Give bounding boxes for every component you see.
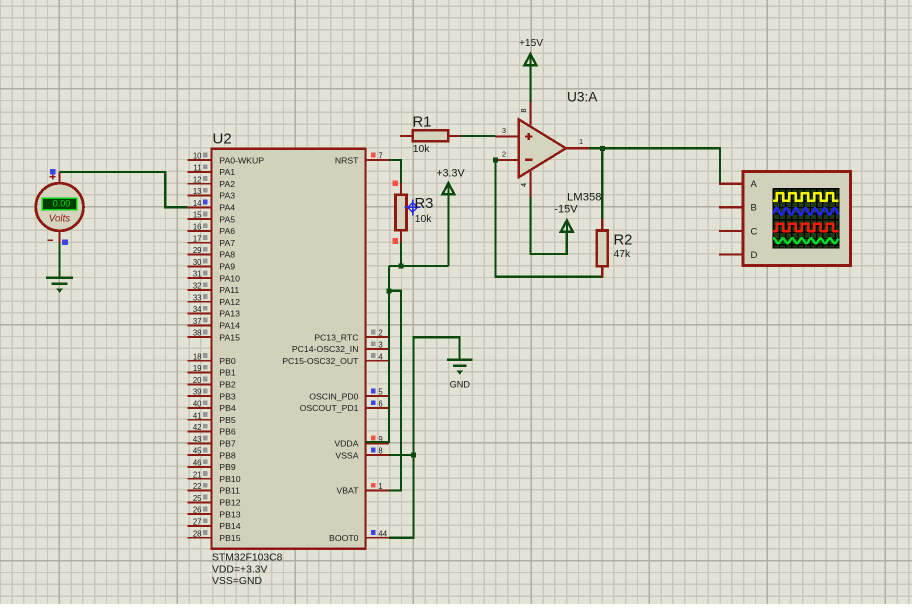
svg-text:PA10: PA10: [219, 273, 240, 283]
U2 pin 15 (PA5) left: [188, 211, 236, 225]
oscilloscope trace channel D (green sine wave): [773, 238, 839, 243]
svg-text:PB10: PB10: [219, 474, 240, 484]
U2 pin 8 (VSSA) right: [335, 447, 389, 461]
svg-text:GND: GND: [450, 379, 471, 389]
voltmeter label Volts: [49, 214, 71, 225]
svg-text:PB14: PB14: [219, 521, 240, 531]
svg-text:5: 5: [378, 388, 383, 397]
oscilloscope pin A: [719, 179, 757, 190]
U2 pin 12 (PA2) left: [188, 175, 236, 189]
svg-text:PB7: PB7: [219, 439, 236, 449]
svg-text:17: 17: [193, 234, 202, 243]
svg-text:PA6: PA6: [219, 226, 235, 236]
svg-text:14: 14: [193, 199, 202, 208]
svg-text:45: 45: [193, 447, 202, 456]
U2 pin 34 (PA13) left: [188, 305, 240, 319]
svg-text:VSS=GND: VSS=GND: [212, 576, 262, 587]
wire R3 bottom to +3.3V junction: [400, 243, 402, 266]
resistor R1 body: [400, 130, 460, 141]
U2 pin 16 (PA6) left: [188, 223, 236, 237]
svg-text:U3:A: U3:A: [567, 90, 598, 105]
svg-text:PA8: PA8: [219, 250, 235, 260]
voltmeter + terminal pin state (blue): [50, 169, 56, 175]
svg-text:32: 32: [193, 282, 202, 291]
svg-text:PB2: PB2: [219, 380, 236, 390]
svg-text:PA14: PA14: [219, 321, 240, 331]
U2 pin 11 (PA1) left: [188, 164, 236, 178]
U3:A value label LM358: [567, 192, 602, 204]
svg-text:PA7: PA7: [219, 238, 235, 248]
voltmeter VM1: [36, 183, 84, 231]
svg-text:PA0-WKUP: PA0-WKUP: [219, 155, 264, 165]
U2 pin 30 (PA9) left: [188, 258, 236, 272]
U2 pin 18 (PB0) left: [188, 352, 236, 366]
svg-text:16: 16: [193, 223, 202, 232]
U2 pin 2 (PC13_RTC) right: [314, 329, 389, 343]
svg-text:25: 25: [193, 494, 202, 503]
U2 pin 26 (PB13) left: [188, 506, 241, 520]
svg-text:10: 10: [193, 152, 202, 161]
oscilloscope pin C: [719, 226, 757, 237]
U2 pin 1 (VBAT) right: [336, 482, 389, 496]
svg-text:28: 28: [193, 529, 202, 538]
svg-text:18: 18: [193, 352, 202, 361]
svg-text:PC14-OSC32_IN: PC14-OSC32_IN: [292, 344, 359, 354]
U2 pin 46 (PB9) left: [188, 459, 236, 473]
op-amp pin 2 (inverting input): [496, 150, 519, 161]
svg-text:1: 1: [579, 137, 583, 146]
U2 pin 31 (PA10) left: [188, 270, 240, 284]
wire op-amp pin8 to +15V: [529, 66, 531, 102]
U2 pin 17 (PA7) left: [188, 234, 236, 248]
U2 pin 14 (PA4) left: [188, 199, 236, 213]
U2 pin 4 (PC15-OSC32_OUT) right: [282, 352, 389, 366]
svg-text:C: C: [751, 226, 758, 237]
svg-text:R2: R2: [614, 232, 633, 248]
U2 pin 45 (PB8) left: [188, 447, 236, 461]
svg-text:PB8: PB8: [219, 450, 236, 460]
svg-text:10k: 10k: [415, 214, 433, 225]
svg-text:PB4: PB4: [219, 403, 236, 413]
svg-text:26: 26: [193, 506, 202, 515]
svg-text:OSCIN_PD0: OSCIN_PD0: [309, 391, 358, 401]
svg-text:PB6: PB6: [219, 427, 236, 437]
svg-text:42: 42: [193, 423, 202, 432]
U2 pin 5 (OSCIN_PD0) right: [309, 388, 389, 402]
svg-text:STM32F103C8: STM32F103C8: [212, 552, 283, 563]
junction op-amp pin2: [493, 158, 498, 163]
svg-text:30: 30: [193, 258, 202, 267]
R1 value label 10k: [413, 144, 431, 155]
R1 reference label: [413, 114, 432, 130]
ground symbol (voltmeter): [46, 278, 73, 293]
svg-text:3: 3: [378, 341, 382, 350]
U2 pin 6 (OSCOUT_PD1) right: [300, 400, 390, 414]
U2 pin 9 (VDDA) right: [334, 435, 389, 449]
svg-text:PA4: PA4: [219, 203, 235, 213]
U2 pin 40 (PB4) left: [188, 400, 236, 414]
svg-text:VSSA: VSSA: [335, 450, 358, 460]
svg-text:34: 34: [193, 305, 202, 314]
oscilloscope trace channel A (yellow square wave): [773, 193, 838, 201]
svg-text:PA5: PA5: [219, 214, 235, 224]
U2 pin 37 (PA14) left: [188, 317, 240, 331]
R3 origin marker: [405, 199, 421, 215]
svg-text:PB11: PB11: [219, 486, 240, 496]
svg-text:33: 33: [193, 293, 202, 302]
oscilloscope trace channel C (red square wave): [773, 224, 839, 231]
svg-text:43: 43: [193, 435, 202, 444]
op-amp pin 8 (V+): [519, 102, 531, 125]
svg-text:PB5: PB5: [219, 415, 236, 425]
svg-text:PB0: PB0: [219, 356, 236, 366]
R3 bottom pin state (red): [392, 238, 398, 244]
ground symbol (GND): [447, 360, 472, 375]
junction VSSA: [411, 453, 416, 458]
svg-text:39: 39: [193, 388, 202, 397]
wire branch to VBAT: [389, 291, 401, 491]
svg-text:PB13: PB13: [219, 509, 240, 519]
power terminal -15V: [554, 203, 578, 232]
U3:A reference label: [567, 90, 598, 105]
svg-text:27: 27: [193, 518, 202, 527]
U2 pin 22 (PB11) left: [188, 482, 240, 496]
U2 pin 3 (PC14-OSC32_IN) right: [292, 341, 389, 355]
wire op-amp pin4 to -15V: [530, 197, 566, 254]
svg-text:PA13: PA13: [219, 309, 240, 319]
svg-text:22: 22: [193, 482, 202, 491]
svg-text:PA9: PA9: [219, 262, 235, 272]
oscilloscope pin D: [719, 250, 757, 261]
R2 value label 47k: [614, 249, 632, 260]
svg-text:PB3: PB3: [219, 391, 236, 401]
svg-text:46: 46: [193, 459, 202, 468]
svg-text:6: 6: [378, 400, 382, 409]
voltmeter display: [42, 198, 77, 209]
svg-text:20: 20: [193, 376, 202, 385]
wire VSSA junction to BOOT0: [389, 455, 413, 538]
svg-text:38: 38: [193, 329, 202, 338]
oscilloscope screen: [773, 189, 839, 249]
wire +3.3V rail horizontal: [389, 265, 449, 267]
resistor R3 body: [396, 183, 407, 243]
svg-text:37: 37: [193, 317, 202, 326]
svg-text:B: B: [751, 203, 757, 214]
svg-text:21: 21: [193, 470, 202, 479]
power terminal +15V: [519, 38, 543, 66]
R3 top pin state (red): [392, 180, 398, 186]
svg-text:+3.3V: +3.3V: [436, 167, 465, 179]
wire VSSA to ground: [389, 337, 459, 455]
wire op-amp output to scope A: [590, 148, 743, 183]
op-amp pin 1 (output): [566, 137, 590, 148]
svg-text:+15V: +15V: [519, 38, 543, 49]
svg-text:BOOT0: BOOT0: [329, 533, 359, 543]
svg-text:2: 2: [502, 150, 506, 159]
svg-text:-15V: -15V: [554, 203, 578, 215]
svg-text:PB9: PB9: [219, 462, 236, 472]
voltmeter - terminal pin state (blue): [62, 240, 68, 246]
U2 pin 19 (PB1) left: [188, 364, 236, 378]
U2 pin 38 (PA15) left: [188, 329, 240, 343]
U2 pin 33 (PA12) left: [188, 293, 240, 307]
microcontroller U2 body: [212, 149, 366, 549]
svg-text:47k: 47k: [614, 249, 632, 260]
svg-text:8: 8: [519, 108, 528, 112]
svg-text:8: 8: [378, 447, 382, 456]
svg-text:19: 19: [193, 364, 202, 373]
junction R3/+3.3V: [399, 263, 404, 268]
wire +3.3V to VDDA rail: [366, 266, 389, 442]
svg-text:A: A: [751, 179, 758, 190]
svg-text:PB12: PB12: [219, 498, 240, 508]
svg-text:4: 4: [519, 183, 528, 187]
svg-text:R1: R1: [413, 114, 432, 130]
svg-text:VBAT: VBAT: [336, 486, 359, 496]
svg-text:10k: 10k: [413, 144, 431, 155]
svg-text:PA3: PA3: [219, 191, 235, 201]
U2 pin 10 (PA0-WKUP) left: [188, 152, 265, 166]
U2 pin 41 (PB5) left: [188, 411, 236, 425]
svg-text:U2: U2: [213, 131, 232, 148]
op-amp U3:A body: [519, 119, 566, 177]
U2 pin 13 (PA3) left: [188, 187, 236, 201]
svg-text:3: 3: [502, 126, 506, 135]
U2 pin 21 (PB10) left: [188, 470, 241, 484]
svg-text:PC13_RTC: PC13_RTC: [314, 332, 358, 342]
svg-text:PA1: PA1: [219, 167, 235, 177]
R3 reference label: [415, 196, 434, 212]
svg-text:4: 4: [378, 352, 383, 361]
svg-text:PB1: PB1: [219, 368, 236, 378]
wire op-amp pin2 to feedback node: [496, 160, 602, 277]
svg-text:NRST: NRST: [335, 155, 359, 165]
U2 pin 32 (PA11) left: [188, 282, 240, 296]
svg-text:44: 44: [378, 529, 387, 538]
svg-text:D: D: [751, 250, 758, 261]
svg-text:31: 31: [193, 270, 202, 279]
U2 pin 39 (PB3) left: [188, 388, 236, 402]
oscilloscope pin B: [719, 203, 757, 214]
wire R1 to op-amp pin3: [460, 135, 495, 137]
oscilloscope trace channel B (blue sine wave): [773, 208, 839, 215]
oscilloscope body: [743, 171, 851, 265]
svg-text:1: 1: [378, 482, 382, 491]
U2 pin 25 (PB12) left: [188, 494, 241, 508]
voltmeter + terminal: [50, 172, 60, 184]
svg-text:12: 12: [193, 175, 202, 184]
wire voltmeter minus to ground: [58, 243, 60, 278]
voltmeter - terminal: [48, 230, 60, 243]
U2 value label STM32F103C8: [212, 552, 283, 587]
junction output/R2: [600, 146, 605, 151]
U2 pin 20 (PB2) left: [188, 376, 236, 390]
svg-text:7: 7: [378, 152, 382, 161]
R2 reference label: [614, 232, 633, 248]
svg-text:PA15: PA15: [219, 332, 240, 342]
svg-text:15: 15: [193, 211, 202, 220]
U2 pin 7 (NRST) right: [335, 152, 389, 166]
svg-text:0.00: 0.00: [53, 199, 71, 209]
U2 pin 44 (BOOT0) right: [329, 529, 389, 543]
wire U2 NRST to R3 top: [389, 160, 401, 183]
svg-text:R3: R3: [415, 196, 434, 212]
svg-text:PA11: PA11: [219, 285, 239, 295]
svg-text:PA12: PA12: [219, 297, 240, 307]
U2 pin 29 (PA8) left: [188, 246, 236, 260]
svg-text:11: 11: [193, 164, 201, 173]
junction VDDA branch: [386, 288, 391, 293]
svg-text:LM358: LM358: [567, 192, 602, 204]
power terminal +3.3V: [436, 167, 465, 266]
U2 reference label: [213, 131, 232, 148]
svg-text:PC15-OSC32_OUT: PC15-OSC32_OUT: [282, 356, 359, 366]
svg-text:13: 13: [193, 187, 202, 196]
svg-text:VDDA: VDDA: [334, 439, 358, 449]
svg-text:2: 2: [378, 329, 382, 338]
resistor R2 body: [597, 219, 608, 278]
svg-text:PA2: PA2: [219, 179, 235, 189]
U2 pin 42 (PB6) left: [188, 423, 236, 437]
svg-text:PB15: PB15: [219, 533, 240, 543]
U2 pin 27 (PB14) left: [188, 518, 241, 532]
svg-text:41: 41: [193, 411, 202, 420]
GND net label: [450, 379, 471, 389]
svg-text:OSCOUT_PD1: OSCOUT_PD1: [300, 403, 359, 413]
svg-text:Volts: Volts: [49, 214, 71, 225]
wire voltmeter plus to U2 PA4: [60, 172, 188, 207]
op-amp pin 3 (non-inverting input): [495, 126, 519, 137]
svg-text:40: 40: [193, 400, 202, 409]
op-amp pin 4 (V-): [519, 172, 531, 198]
wire output junction to R2 top: [601, 148, 603, 218]
U2 pin 43 (PB7) left: [188, 435, 236, 449]
U2 pin 28 (PB15) left: [188, 529, 241, 543]
svg-text:29: 29: [193, 246, 202, 255]
R3 value label 10k: [415, 214, 433, 225]
svg-text:VDD=+3.3V: VDD=+3.3V: [212, 565, 268, 576]
